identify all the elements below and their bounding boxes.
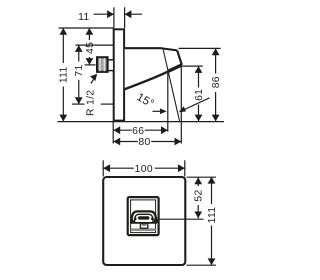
mouth base line [131,222,157,224]
opening outer rect [128,197,159,235]
svg-text:11: 11 [78,12,89,23]
extension line horizontal at 86 top [179,47,221,49]
dimension 61 [194,66,205,121]
front view plate [103,177,185,265]
svg-text:100: 100 [135,164,153,175]
dimension 111 (side) [59,28,70,121]
svg-text:15°: 15° [134,91,156,110]
svg-text:R 1/2: R 1/2 [86,90,97,116]
extension line (71 top ref) [76,44,114,46]
wall plate (side view) [114,29,124,120]
dimension 86 [211,48,222,121]
thread connector R1/2 (hatched block) [97,57,107,72]
dimension 45 [85,28,96,65]
extension line vertical at 66 (from spout underside to dim) [167,71,169,132]
ground reference line [58,121,225,123]
mouth side dots [134,217,137,220]
extension tick (71 bottom ref) [72,103,85,105]
dimension 100 [103,160,185,176]
svg-text:66: 66 [132,126,144,137]
svg-text:71: 71 [74,64,85,76]
dimension 66 [113,126,167,137]
dimension 111 (front) [207,177,218,265]
svg-text:111: 111 [207,207,218,224]
dimension 15 degrees [134,91,209,114]
mouth left wing [131,217,136,223]
svg-text:80: 80 [138,137,150,148]
dimension 11 (plate thickness) [78,7,142,28]
svg-text:45: 45 [85,42,96,54]
outlet box below mouth [140,223,147,228]
svg-text:86: 86 [211,76,222,88]
spout body (side view) [125,48,182,89]
neck between thread and plate [108,60,114,71]
dimension 71 [74,45,85,104]
mouth right wing [152,217,157,223]
inner 15-degree reference line [163,50,179,121]
mouth inner arc [135,214,154,222]
bottom-left wall extension [112,122,114,144]
svg-text:52: 52 [194,189,205,201]
extension line vertical at 80 (from outlet corner to dim) [180,65,182,143]
mouth center slot [138,216,149,219]
opening inner rect [131,200,156,233]
dimension 80 [113,137,181,148]
gray band under mouth [131,228,156,231]
dimension 52 [194,177,205,218]
spout mouth (front view) [131,211,157,231]
label R 1/2 with leader [86,74,97,116]
extension tick (45 bottom ref) [85,64,96,66]
svg-text:111: 111 [59,66,70,83]
leader from mouth to 52 dim [152,218,204,220]
top extension line (45/111 top ref) [59,27,114,29]
svg-text:61: 61 [194,89,205,101]
right extension lines (front view) [187,176,217,178]
extension line horizontal at 61 top [182,65,203,67]
